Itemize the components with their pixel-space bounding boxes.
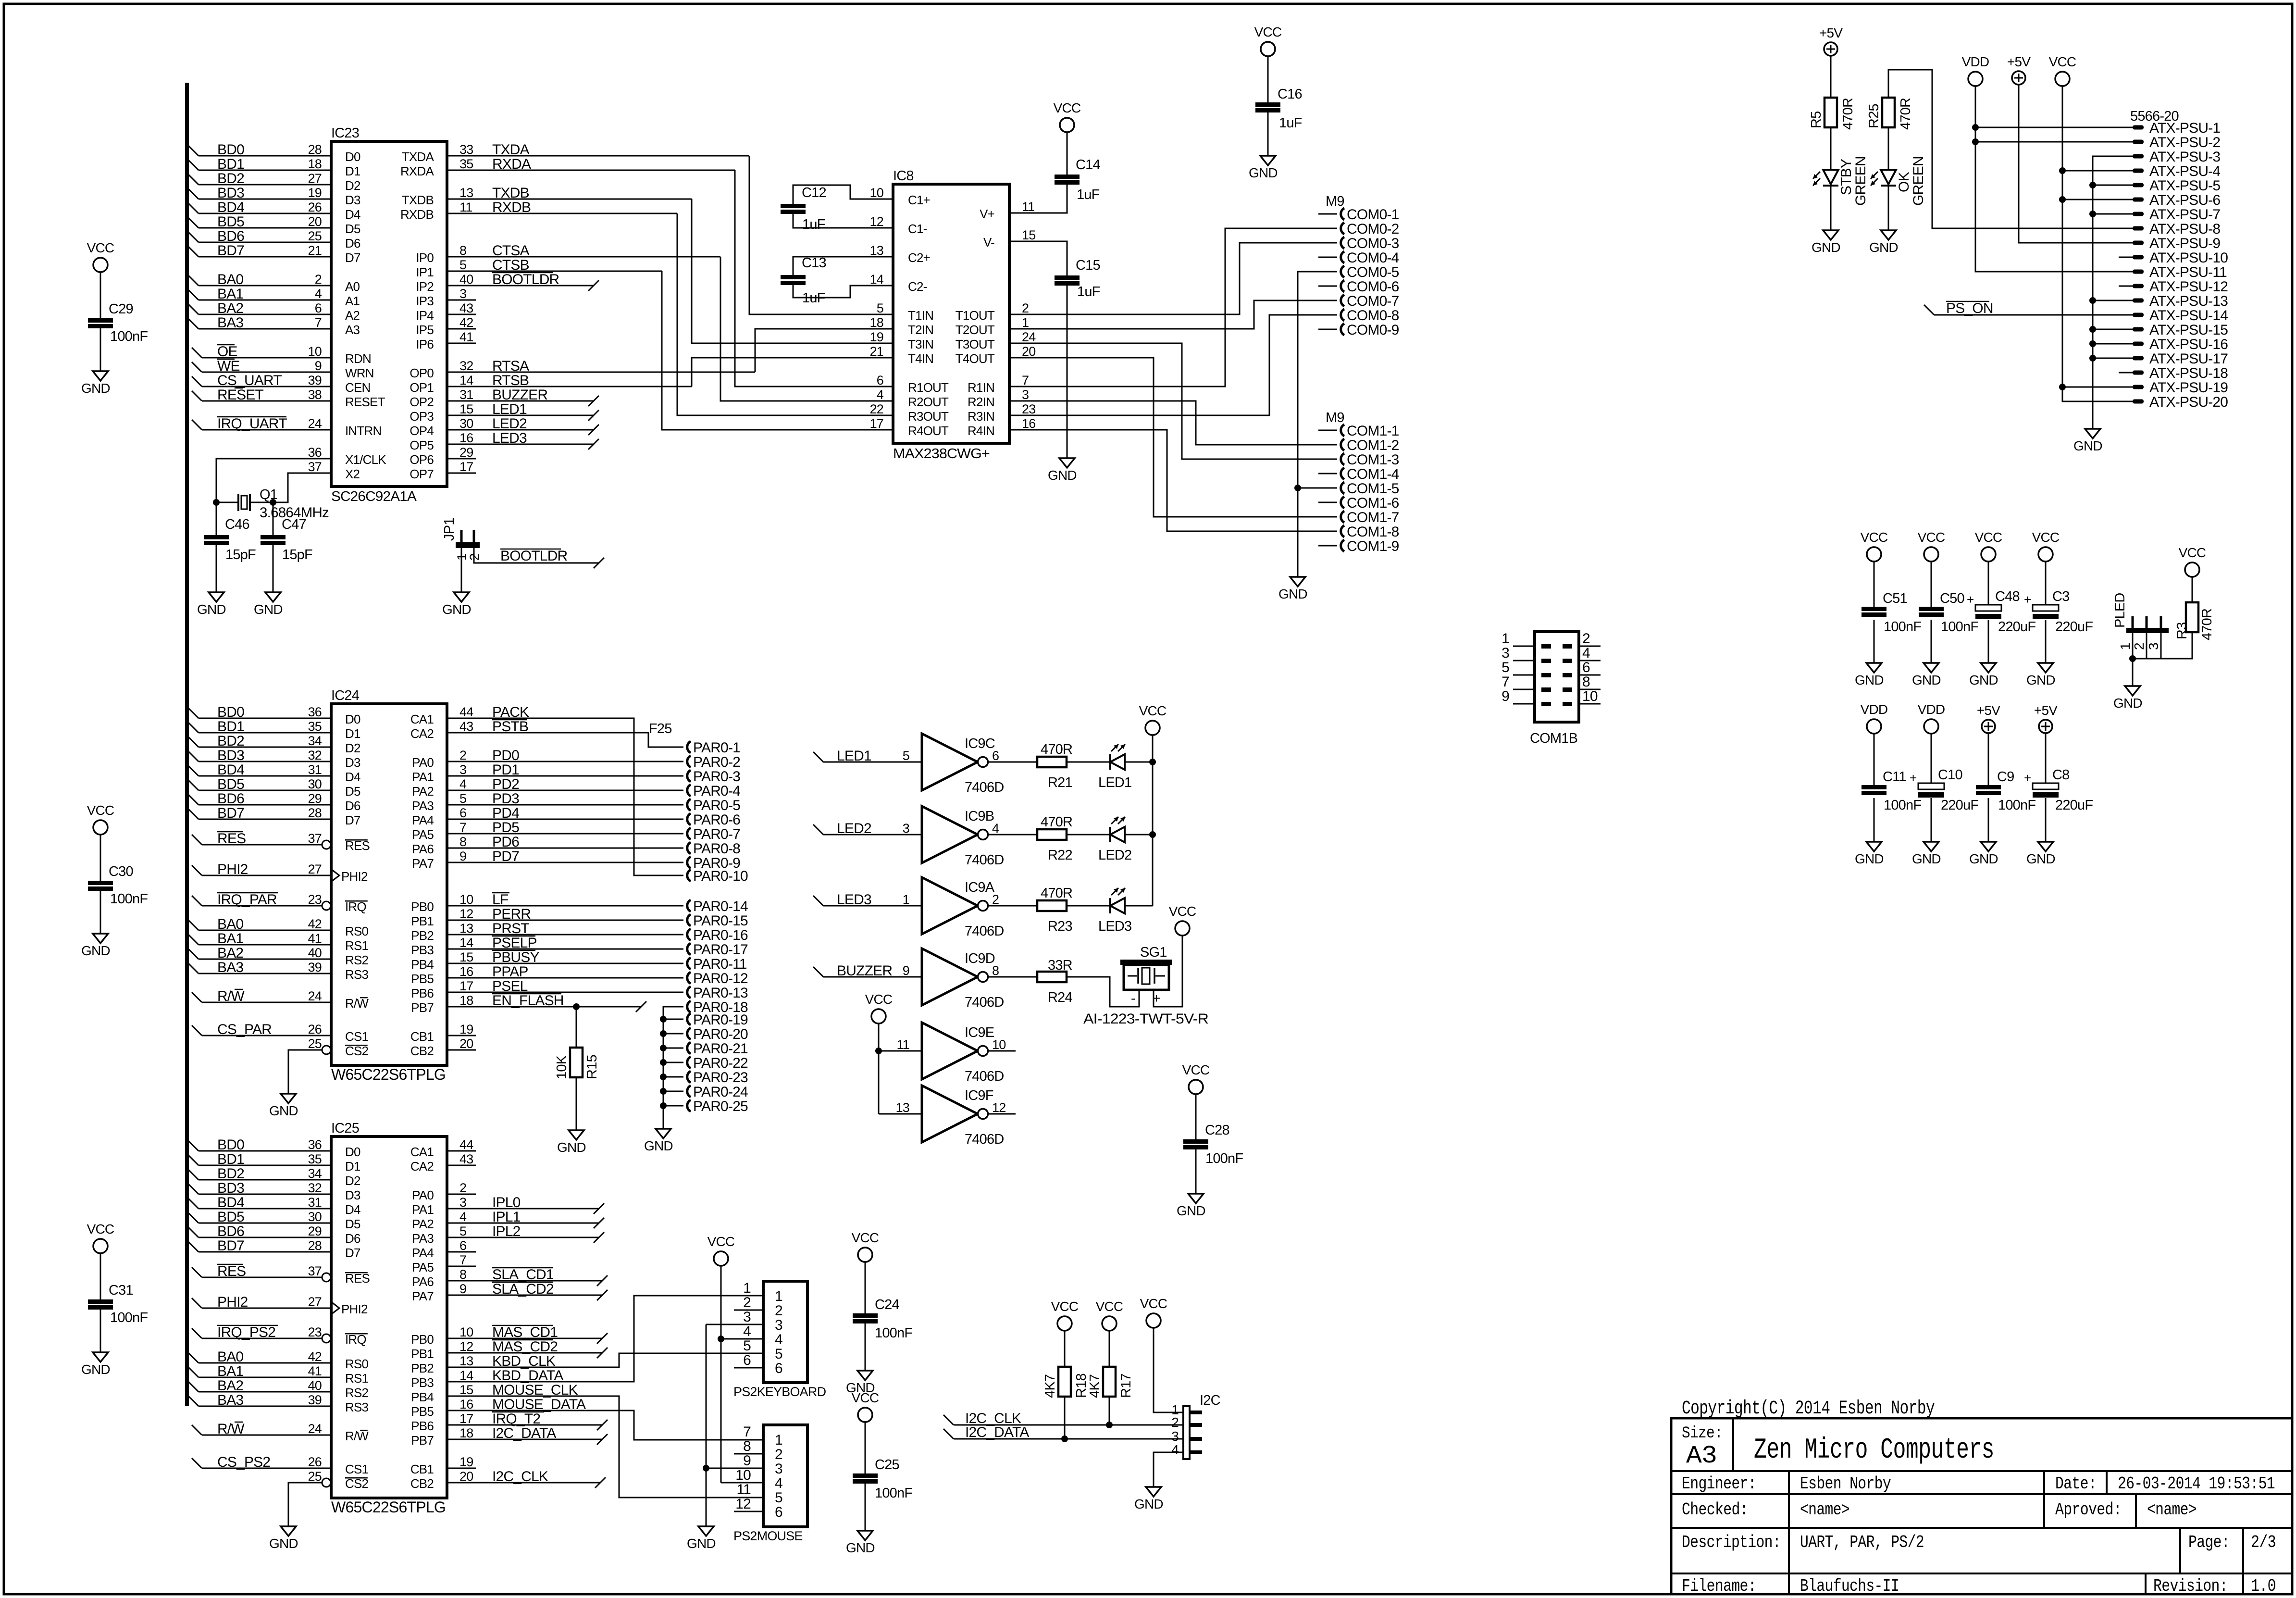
svg-text:PHI2: PHI2 (341, 869, 368, 884)
svg-text:CS2: CS2 (345, 1044, 369, 1058)
svg-text:GND: GND (1134, 1497, 1163, 1511)
svg-text:7: 7 (1022, 373, 1029, 387)
svg-text:ATX-PSU-19: ATX-PSU-19 (2149, 380, 2228, 396)
wire I2C_CLK (447, 1482, 600, 1484)
svg-text:PAR0-10: PAR0-10 (693, 868, 748, 884)
capacitor C13 (793, 257, 893, 275)
svg-text:PAR0-7: PAR0-7 (693, 826, 740, 842)
svg-text:5: 5 (903, 749, 909, 763)
svg-text:24: 24 (1022, 330, 1036, 344)
svg-text:R3OUT: R3OUT (908, 409, 949, 424)
wire +5V to ATX-PSU-9 (2019, 85, 2133, 243)
title block column lines (1732, 1418, 1734, 1471)
LED LED2 (1109, 827, 1111, 842)
svg-text:BD4: BD4 (217, 200, 244, 215)
connector pin PAR0-6 (687, 813, 691, 825)
svg-text:39: 39 (308, 373, 322, 387)
svg-text:11: 11 (1022, 200, 1034, 214)
capacitor C47 (273, 502, 274, 535)
svg-text:8: 8 (743, 1438, 751, 1454)
svg-text:Zen Micro Computers: Zen Micro Computers (1754, 1434, 1994, 1467)
svg-text:3: 3 (1502, 645, 1509, 661)
svg-text:17: 17 (870, 416, 883, 431)
svg-text:4: 4 (992, 821, 999, 836)
svg-text:COM0-3: COM0-3 (1347, 236, 1399, 251)
svg-text:PA2: PA2 (412, 784, 434, 799)
svg-text:BD5: BD5 (217, 214, 244, 230)
svg-text:3: 3 (459, 1195, 466, 1210)
wire I2C_CLK (943, 1415, 954, 1425)
wire PD2 (447, 790, 683, 791)
svg-text:PS2MOUSE: PS2MOUSE (733, 1529, 803, 1543)
svg-text:30: 30 (308, 777, 322, 791)
connector PS2KEYBOARD box (763, 1281, 807, 1383)
svg-text:6: 6 (743, 1352, 751, 1368)
svg-text:PA1: PA1 (412, 770, 434, 784)
svg-text:LF: LF (492, 892, 509, 908)
svg-text:4: 4 (877, 387, 884, 402)
svg-text:RS0: RS0 (345, 924, 369, 938)
LED LED1 (1109, 754, 1111, 770)
wire IPL1 (447, 1223, 599, 1224)
svg-text:OP2: OP2 (410, 395, 434, 409)
svg-text:RTSB: RTSB (492, 373, 529, 388)
svg-text:<name>: <name> (2147, 1500, 2197, 1520)
connector pin COM1-2 (1318, 444, 1337, 446)
svg-text:15: 15 (459, 950, 473, 964)
wire VCC to buzzer plus (1154, 936, 1182, 1007)
svg-text:R17: R17 (1118, 1373, 1134, 1398)
svg-text:PD7: PD7 (492, 849, 519, 864)
svg-text:ATX-PSU-6: ATX-PSU-6 (2149, 192, 2220, 208)
title block frame (1671, 1418, 2292, 1594)
svg-text:+5V: +5V (2034, 703, 2058, 718)
svg-text:Blaufuchs-II: Blaufuchs-II (1800, 1576, 1899, 1596)
svg-text:35: 35 (308, 1152, 322, 1166)
wire I2C_DATA (447, 1439, 602, 1440)
wire VCC to C28 (1195, 1094, 1197, 1139)
svg-text:27: 27 (308, 171, 322, 186)
svg-text:PB1: PB1 (411, 1347, 434, 1361)
junction GND ATX row 625 (2089, 297, 2096, 304)
wire VCC to I2C pin1 (1154, 1328, 1183, 1412)
IC25 stub PA0 (447, 1194, 476, 1195)
ground under IC24 CS2 (281, 1094, 296, 1103)
svg-text:D0: D0 (345, 150, 360, 164)
wire C14 to V+ (1009, 185, 1067, 213)
bus entry + wire BA1 (188, 289, 199, 300)
svg-text:VCC: VCC (1140, 1296, 1167, 1311)
svg-text:RXDA: RXDA (400, 164, 434, 178)
connector pin ATX-PSU-20 (2133, 399, 2144, 404)
svg-text:CTSA: CTSA (492, 243, 530, 259)
svg-text:-: - (1131, 991, 1135, 1006)
wire RTSA to IC8 T2IN (755, 329, 893, 372)
svg-text:C3: C3 (2052, 589, 2069, 604)
svg-text:PAR0-3: PAR0-3 (693, 769, 740, 785)
ground under C16 (1260, 156, 1276, 165)
power VCC above C14 (1060, 118, 1074, 132)
ground under C8 (2038, 842, 2053, 851)
svg-text:EN_FLASH: EN_FLASH (492, 993, 564, 1009)
svg-text:C47: C47 (282, 517, 306, 532)
wire PBUSY (447, 963, 683, 964)
svg-text:RES: RES (345, 838, 370, 853)
bus entry + wire BD1 (188, 722, 199, 733)
power VCC for R18 (1057, 1316, 1072, 1331)
wire C15 to GND (1067, 286, 1068, 458)
connector COM1B box (1535, 632, 1579, 722)
resistor R22 470R (1037, 829, 1067, 840)
wire R/W (192, 1425, 202, 1435)
bus entry + wire BD2 (188, 1169, 199, 1180)
wire JP1 pin1 to GND (461, 548, 462, 592)
svg-text:30: 30 (308, 1210, 322, 1224)
wire GND rail ATX (2093, 156, 2133, 429)
wire X2 to crystal (273, 473, 331, 502)
svg-text:4: 4 (315, 287, 322, 301)
junction GND ATX row 685 (2089, 326, 2096, 333)
svg-text:BD4: BD4 (217, 762, 244, 778)
connector pin COM1-7 (1318, 516, 1337, 518)
ground under C46 (209, 592, 224, 602)
svg-text:COM0-9: COM0-9 (1347, 322, 1399, 338)
svg-text:PBUSY: PBUSY (492, 949, 539, 965)
svg-text:BA2: BA2 (217, 1378, 243, 1394)
svg-text:7: 7 (315, 315, 322, 330)
svg-text:D1: D1 (345, 726, 360, 741)
wire BUZZER from IC23 (447, 400, 594, 402)
junction PLED pin1 (2129, 655, 2136, 662)
wire VCC to PS2MOUSE pin4 (721, 1482, 763, 1484)
svg-text:GND: GND (1969, 673, 1998, 687)
connector pin ATX-PSU-18 (2119, 372, 2133, 374)
svg-text:VCC: VCC (2179, 545, 2206, 560)
connector pin ATX-PSU-9 (2133, 241, 2144, 245)
svg-text:PAR0-13: PAR0-13 (693, 985, 748, 1001)
wire LED3 from IC23 (447, 444, 594, 445)
svg-text:CA1: CA1 (410, 712, 434, 726)
power +5V (ATX) (2012, 71, 2025, 85)
wire COM1-5 stub (1298, 487, 1318, 489)
svg-text:Q1: Q1 (260, 487, 277, 502)
svg-text:35: 35 (308, 719, 322, 734)
svg-text:C2+: C2+ (908, 250, 930, 265)
resistor R21 470R (1037, 757, 1067, 767)
svg-text:25: 25 (308, 1036, 322, 1051)
wire GND to ATX pin (2093, 329, 2133, 330)
svg-text:D2: D2 (345, 178, 360, 193)
svg-text:IC9B: IC9B (965, 809, 994, 824)
wire MAS_CD2 (447, 1352, 602, 1354)
svg-text:D6: D6 (345, 1231, 360, 1246)
svg-text:15: 15 (459, 1383, 473, 1397)
svg-text:10: 10 (992, 1037, 1005, 1052)
svg-text:37: 37 (308, 460, 322, 474)
bus entry + wire BA2 (188, 1381, 199, 1392)
wire T1OUT to COM0-3 (1009, 243, 1318, 314)
svg-text:R24: R24 (1048, 990, 1072, 1005)
svg-text:OP0: OP0 (410, 366, 434, 380)
svg-text:35: 35 (459, 157, 473, 171)
svg-text:R21: R21 (1048, 775, 1072, 790)
svg-text:PPAP: PPAP (492, 964, 528, 980)
svg-text:GND: GND (1278, 587, 1307, 601)
capacitor C8 220uF (2033, 783, 2059, 789)
wire C47 to GND (273, 545, 274, 592)
svg-text:Date:: Date: (2055, 1474, 2097, 1494)
junction R17 I2C_CLK (1106, 1422, 1113, 1428)
connector pin PAR0-11 (687, 958, 691, 969)
svg-text:Page:: Page: (2188, 1533, 2230, 1552)
connector pin PAR0-13 (687, 986, 691, 998)
svg-text:OP7: OP7 (410, 467, 434, 481)
svg-text:IC9F: IC9F (965, 1088, 993, 1103)
bus entry + wire BA0 (188, 275, 199, 286)
svg-text:12: 12 (992, 1100, 1005, 1115)
svg-text:COM0-5: COM0-5 (1347, 264, 1399, 280)
wire MAS_CD1 (447, 1338, 602, 1339)
connector pin PAR0-23 (660, 1074, 667, 1080)
junction VDD ATX-PSU-1 (1972, 124, 1979, 131)
svg-text:32: 32 (308, 748, 322, 762)
connector pin COM0-9 (1318, 329, 1337, 330)
wire C28 to GND (1195, 1149, 1197, 1194)
power VCC for R17 (1102, 1316, 1117, 1331)
wire TXDA from IC23 (447, 155, 749, 157)
svg-text:C9: C9 (1997, 769, 2014, 785)
wire VCC to C48 (1988, 562, 1989, 605)
svg-text:VCC: VCC (1254, 25, 1282, 39)
svg-text:4: 4 (775, 1332, 782, 1348)
svg-text:BD5: BD5 (217, 776, 244, 792)
svg-text:10: 10 (308, 344, 322, 359)
svg-text:CEN: CEN (345, 380, 371, 395)
power VCC for C50 (1924, 547, 1938, 562)
svg-text:LED3: LED3 (1098, 919, 1131, 934)
svg-text:RXDB: RXDB (400, 207, 434, 222)
svg-text:VCC: VCC (2032, 530, 2060, 545)
svg-text:W65C22S6TPLG: W65C22S6TPLG (331, 1066, 446, 1083)
wire IRQ_T2 (447, 1424, 602, 1426)
svg-text:PAR0-25: PAR0-25 (693, 1099, 748, 1114)
junction node crystal right (270, 499, 276, 506)
svg-text:GND: GND (1812, 240, 1840, 255)
svg-text:21: 21 (870, 344, 883, 359)
svg-text:Filename:: Filename: (1682, 1576, 1756, 1596)
svg-text:11: 11 (897, 1037, 909, 1052)
svg-text:V-: V- (983, 235, 994, 250)
wire VCC to ATX pin (2062, 387, 2133, 388)
svg-text:+: + (1967, 592, 1973, 607)
svg-text:IP0: IP0 (416, 250, 434, 265)
power VCC for C25 (858, 1408, 872, 1422)
svg-text:6: 6 (992, 749, 999, 763)
ground under C51 (1866, 663, 1882, 673)
svg-text:C29: C29 (109, 301, 133, 317)
wire C46 to GND (216, 545, 217, 592)
svg-text:10: 10 (459, 892, 473, 907)
svg-text:BD0: BD0 (217, 142, 244, 158)
capacitor C3 220uF (2033, 605, 2059, 611)
ground under PLED (2125, 686, 2140, 696)
connector pin PAR0-21 (660, 1045, 667, 1051)
svg-text:IP4: IP4 (416, 308, 434, 323)
svg-text:14: 14 (459, 936, 473, 950)
capacitor C48 220uF (1975, 605, 2001, 611)
svg-text:RS1: RS1 (345, 1371, 369, 1386)
connector pin PAR0-8 (687, 842, 691, 854)
svg-text:RES: RES (217, 831, 246, 847)
wire RTSA from IC23 (447, 372, 755, 373)
junction PS2KEYBOARD pin4 (718, 1336, 724, 1342)
svg-text:13: 13 (459, 921, 473, 936)
svg-text:WE: WE (217, 358, 240, 374)
svg-text:Esben Norby: Esben Norby (1800, 1474, 1891, 1494)
ground under C28 (1188, 1194, 1204, 1203)
wire VCC to ATX pin (2062, 170, 2133, 172)
svg-text:Copyright(C) 2014 Esben Norby: Copyright(C) 2014 Esben Norby (1682, 1398, 1935, 1420)
svg-text:6: 6 (775, 1504, 782, 1520)
connector pin COM1-1 (1318, 430, 1337, 431)
svg-text:PS_ON: PS_ON (1946, 300, 1993, 316)
wire VCC to C24 (865, 1262, 866, 1313)
IC23 stub pin wire (447, 300, 476, 301)
chip IC25 box (331, 1136, 447, 1498)
svg-text:4: 4 (743, 1323, 751, 1339)
svg-text:D0: D0 (345, 712, 360, 726)
svg-text:3: 3 (1171, 1429, 1179, 1444)
wire VCC to R3 (2192, 577, 2193, 602)
svg-text:IRQ: IRQ (345, 899, 366, 914)
power VCC for LEDs (1145, 721, 1160, 735)
power +5V for C9 (1982, 720, 1995, 733)
power VCC (ATX) (2055, 72, 2070, 86)
connector pin PAR0-18 (687, 1001, 691, 1012)
wire crystal left (216, 502, 238, 503)
wire VCC to C3 (2045, 562, 2047, 605)
bus entry + wire BA1 (188, 934, 199, 945)
svg-text:BD1: BD1 (217, 1151, 244, 1167)
svg-text:20: 20 (1022, 344, 1035, 359)
svg-text:JP1: JP1 (442, 518, 457, 541)
svg-text:OK: OK (1896, 172, 1912, 192)
connector pin ATX-PSU-10 (2119, 257, 2133, 258)
connector pin COM0-1 (1318, 213, 1337, 215)
connector pin ATX-PSU-3 (2133, 154, 2144, 159)
svg-text:4: 4 (1582, 645, 1590, 661)
junction LED2 rail (1149, 831, 1156, 838)
svg-text:31: 31 (308, 762, 322, 777)
svg-text:100nF: 100nF (1941, 619, 1978, 635)
bus entry + wire BA1 (188, 1367, 199, 1377)
svg-text:3: 3 (459, 762, 466, 777)
svg-text:33R: 33R (1048, 958, 1072, 973)
junction R18 I2C_DATA (1061, 1436, 1068, 1442)
wire RXDB from IC23 (447, 213, 677, 214)
wire PD0 (447, 761, 683, 762)
bus entry + wire BD2 (188, 737, 199, 747)
svg-text:C2-: C2- (908, 279, 927, 294)
svg-text:BA3: BA3 (217, 960, 243, 975)
svg-text:CB1: CB1 (410, 1462, 434, 1476)
svg-text:3: 3 (1022, 387, 1029, 402)
svg-text:OP4: OP4 (410, 424, 434, 438)
resistor R18 4K7 (1058, 1367, 1071, 1397)
svg-text:COM1-7: COM1-7 (1347, 510, 1399, 525)
wire CTSA from IC23 (447, 256, 720, 258)
capacitor C25 (853, 1473, 878, 1478)
connector PS2MOUSE box (763, 1425, 807, 1527)
svg-text:BA1: BA1 (217, 1363, 243, 1379)
COM1B pins 3/4 (1513, 660, 1535, 662)
wire PACK (CA1) to PAR0-10 (447, 718, 683, 875)
svg-text:ATX-PSU-2: ATX-PSU-2 (2149, 135, 2220, 150)
resistor R23 470R (1037, 900, 1067, 911)
resistor R15 10K (576, 1007, 577, 1048)
svg-text:15: 15 (1022, 228, 1035, 242)
svg-text:INTRN: INTRN (345, 424, 381, 438)
wire VCC to C25 (865, 1422, 866, 1473)
svg-text:BA0: BA0 (217, 1349, 243, 1365)
svg-text:43: 43 (459, 719, 473, 734)
svg-text:WRN: WRN (345, 366, 374, 380)
svg-text:16: 16 (459, 431, 473, 445)
wire R4IN to COM1-8 (1009, 430, 1318, 531)
svg-text:ATX-PSU-4: ATX-PSU-4 (2149, 163, 2220, 179)
svg-text:9: 9 (315, 359, 322, 373)
svg-text:T4OUT: T4OUT (956, 351, 995, 366)
svg-text:PAR0-6: PAR0-6 (693, 812, 740, 828)
svg-text:28: 28 (308, 142, 322, 157)
connector pin PAR0-9 (687, 857, 691, 868)
connector pin PAR0-15 (687, 914, 691, 926)
svg-text:2/3: 2/3 (2251, 1533, 2276, 1552)
svg-text:+5V: +5V (1819, 25, 1843, 40)
svg-text:VDD: VDD (1861, 702, 1888, 717)
IC25 stub PA5 (447, 1266, 476, 1267)
svg-text:C25: C25 (875, 1457, 899, 1473)
svg-text:C31: C31 (109, 1283, 133, 1298)
svg-text:6: 6 (315, 301, 322, 315)
svg-text:GREEN: GREEN (1911, 156, 1926, 206)
svg-text:SLA_CD2: SLA_CD2 (492, 1281, 554, 1297)
svg-text:2: 2 (459, 1181, 466, 1195)
svg-text:7406D: 7406D (965, 780, 1004, 795)
svg-text:GND: GND (1912, 673, 1941, 687)
wire IC24 CS2 to GND (288, 1050, 322, 1094)
svg-text:C12: C12 (802, 185, 826, 200)
svg-text:I2C: I2C (1200, 1393, 1220, 1408)
svg-text:C24: C24 (875, 1297, 899, 1312)
svg-text:2: 2 (775, 1303, 782, 1319)
svg-text:BUZZER: BUZZER (837, 963, 892, 979)
svg-text:COM0-8: COM0-8 (1347, 308, 1399, 324)
svg-text:7406D: 7406D (965, 1132, 1004, 1147)
wire C12 to pin 12 (793, 214, 893, 228)
svg-text:36: 36 (308, 705, 322, 719)
wire T2OUT to COM0-7 (1009, 300, 1318, 329)
svg-text:A3: A3 (1686, 1442, 1717, 1470)
wire LED2 from IC23 (447, 429, 594, 431)
svg-text:GND: GND (2073, 438, 2102, 453)
power +5V for R5 (1824, 42, 1837, 56)
wire R23 to LED (1067, 905, 1110, 907)
junction VCC ATX row 415 (2059, 196, 2066, 203)
wire C11 to GND (1874, 798, 1875, 842)
svg-text:COM1-1: COM1-1 (1347, 423, 1399, 439)
IC25 stub CB1 (447, 1468, 476, 1469)
